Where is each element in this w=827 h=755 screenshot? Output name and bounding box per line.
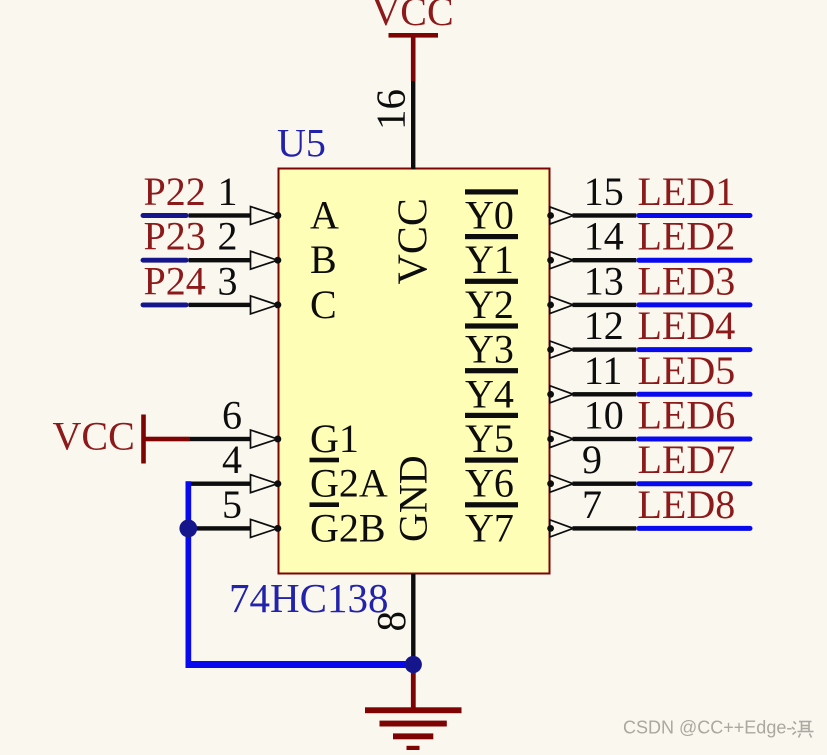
- svg-text:Y7: Y7: [465, 505, 514, 550]
- svg-text:Y0: Y0: [465, 193, 514, 238]
- svg-text:7: 7: [582, 482, 602, 527]
- svg-text:LED7: LED7: [638, 437, 736, 482]
- svg-text:LED8: LED8: [638, 482, 736, 527]
- svg-text:4: 4: [222, 437, 242, 482]
- svg-text:LED5: LED5: [638, 348, 736, 393]
- svg-text:P23: P23: [144, 214, 206, 259]
- svg-text:CSDN @CC++Edge-: CSDN @CC++Edge-: [623, 718, 792, 738]
- svg-text:16: 16: [368, 89, 414, 130]
- svg-text:B: B: [310, 237, 337, 282]
- svg-text:2: 2: [218, 214, 238, 259]
- svg-text:GND: GND: [391, 455, 436, 542]
- svg-text:P22: P22: [144, 169, 206, 214]
- svg-text:VCC: VCC: [391, 198, 437, 284]
- svg-text:1: 1: [218, 169, 238, 214]
- svg-text:LED2: LED2: [638, 214, 736, 259]
- svg-text:LED1: LED1: [638, 169, 736, 214]
- svg-text:LED6: LED6: [638, 393, 736, 438]
- svg-text:Y2: Y2: [465, 282, 514, 327]
- svg-text:LED3: LED3: [638, 258, 736, 303]
- svg-text:Y3: Y3: [465, 327, 514, 372]
- svg-text:VCC: VCC: [371, 0, 453, 34]
- svg-text:11: 11: [584, 348, 623, 393]
- svg-text:8: 8: [368, 611, 414, 632]
- svg-text:A: A: [310, 193, 339, 238]
- svg-text:14: 14: [584, 214, 624, 259]
- svg-text:LED4: LED4: [638, 303, 736, 348]
- svg-text:5: 5: [222, 482, 242, 527]
- svg-text:Y1: Y1: [465, 237, 514, 282]
- svg-text:13: 13: [584, 258, 624, 303]
- svg-text:VCC: VCC: [53, 414, 135, 459]
- svg-text:P24: P24: [144, 258, 206, 303]
- svg-text:G2A: G2A: [310, 461, 388, 506]
- svg-text:Y6: Y6: [465, 461, 514, 506]
- svg-text:10: 10: [584, 393, 624, 438]
- svg-text:12: 12: [584, 303, 624, 348]
- svg-text:74HC138: 74HC138: [229, 575, 388, 621]
- svg-text:15: 15: [584, 169, 624, 214]
- svg-text:G2B: G2B: [310, 505, 386, 550]
- svg-text:Y5: Y5: [465, 416, 514, 461]
- svg-text:C: C: [310, 282, 337, 327]
- svg-text:3: 3: [218, 258, 238, 303]
- svg-text:6: 6: [222, 393, 242, 438]
- svg-text:U5: U5: [277, 121, 326, 166]
- svg-text:G1: G1: [310, 416, 359, 461]
- svg-text:Y4: Y4: [465, 371, 514, 416]
- svg-text:9: 9: [582, 437, 602, 482]
